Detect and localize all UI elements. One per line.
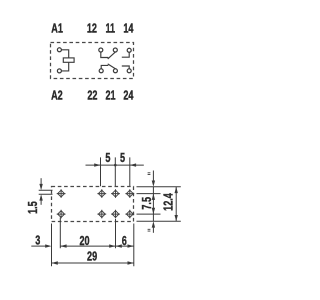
equal-gap outside arrows <box>152 171 155 233</box>
solder pin hole A2 <box>57 210 66 219</box>
pin label 11 <box>105 22 115 36</box>
pin label 21 <box>105 89 115 103</box>
dimension 7.5 line with arrows <box>152 194 155 215</box>
svg-text:A2: A2 <box>51 89 63 103</box>
pin label 14 <box>123 22 134 36</box>
svg-text:22: 22 <box>87 89 97 103</box>
dimension 6 label <box>122 234 127 248</box>
dimension 1.5 arrows <box>39 178 42 205</box>
dimension line 5-5 with outside arrows and middle dot <box>86 163 144 166</box>
dimension 3 label <box>35 234 40 248</box>
solder pin hole 14 <box>125 189 134 198</box>
pin label 12 <box>87 22 97 36</box>
dimension 12.4 line with arrows <box>175 187 178 222</box>
dimension 12.4 label rotated <box>162 193 176 211</box>
dimension 20 label <box>79 234 89 248</box>
equality mark bottom <box>148 229 151 231</box>
dimension label 5 first <box>105 152 110 166</box>
dimension 29 line with arrows <box>52 261 134 264</box>
wire A1 to coil <box>62 50 69 58</box>
coil terminal circle A1 <box>57 48 61 52</box>
terminal label A2 <box>51 89 63 103</box>
equality mark top <box>148 173 151 175</box>
solder pin hole 11 <box>111 189 120 198</box>
svg-text:7.5: 7.5 <box>140 197 154 210</box>
solder pin hole 24 <box>125 210 134 219</box>
dimension 7.5 label rotated <box>140 197 154 210</box>
svg-text:1.5: 1.5 <box>27 201 41 214</box>
right side extension lines <box>137 187 181 222</box>
pin label 22 <box>87 89 97 103</box>
extension lines for 5-5 <box>101 157 130 186</box>
svg-text:24: 24 <box>123 89 134 103</box>
svg-text:14: 14 <box>123 22 134 36</box>
dimension 1.5 extension lines <box>39 190 53 194</box>
solder pin hole 21 <box>111 210 120 219</box>
dimension 20 line with arrows <box>60 244 115 247</box>
svg-text:12.4: 12.4 <box>162 193 176 211</box>
relay body outline dashed (bottom view) <box>52 187 134 222</box>
svg-text:11: 11 <box>105 22 115 36</box>
bottom extension lines <box>52 218 134 267</box>
dimension label 5 second <box>120 152 125 166</box>
NC contact terminal 22 <box>99 65 108 72</box>
svg-text:12: 12 <box>87 22 97 36</box>
svg-text:21: 21 <box>105 89 115 103</box>
common terminal 11 with lever <box>108 48 118 59</box>
dimension 6 line with arrows <box>116 244 134 247</box>
solder pin hole A1 <box>57 189 66 198</box>
solder pin hole 12 <box>97 189 106 198</box>
NO contact terminal 24 <box>122 66 131 73</box>
relay outline dashed box <box>51 43 134 79</box>
dimension 3 outside arrow <box>31 244 51 247</box>
coil K1 <box>63 58 74 62</box>
NO contact terminal 14 <box>122 48 131 57</box>
NC contact terminal 12 <box>99 48 109 58</box>
wire coil to A2 <box>62 62 69 71</box>
coil terminal circle A2 <box>57 69 61 73</box>
solder pin hole 22 <box>97 210 106 219</box>
svg-text:A1: A1 <box>51 22 63 36</box>
dimension 1.5 label rotated <box>27 201 41 214</box>
svg-text:29: 29 <box>87 250 97 264</box>
common terminal 21 with lever <box>108 64 118 73</box>
terminal label A1 <box>51 22 63 36</box>
svg-text:5: 5 <box>120 152 125 166</box>
pin label 24 <box>123 89 134 103</box>
dimension 29 label <box>87 250 97 264</box>
svg-text:5: 5 <box>105 152 110 166</box>
